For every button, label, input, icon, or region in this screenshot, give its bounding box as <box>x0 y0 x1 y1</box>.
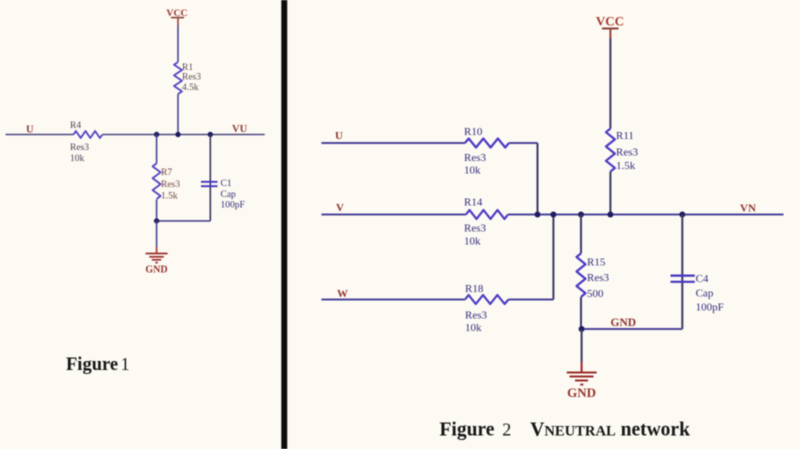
svg-text:10k: 10k <box>465 322 482 334</box>
wire W branch up <box>552 215 554 300</box>
wire U to R10 <box>321 142 465 144</box>
wire C1 branch vertical <box>209 135 211 221</box>
bottom wire R7 to C1 <box>157 220 211 222</box>
wire U to R4 <box>6 134 74 136</box>
junction node at R7 <box>154 132 159 137</box>
wire R11 to V node <box>609 172 611 215</box>
wire R1 to main node <box>177 94 179 135</box>
svg-text:Res3: Res3 <box>161 180 180 190</box>
svg-text:GND: GND <box>611 317 637 329</box>
wire R14 to VN <box>508 214 784 216</box>
svg-text:R1: R1 <box>182 63 193 73</box>
junction R15 <box>578 212 584 218</box>
junction U drop <box>535 212 541 218</box>
svg-text:VU: VU <box>232 124 248 135</box>
resistor R14 <box>464 197 508 248</box>
junction R11 <box>607 212 613 218</box>
svg-text:C1: C1 <box>221 179 232 189</box>
svg-text:R15: R15 <box>587 257 606 269</box>
junction W rise <box>550 212 556 218</box>
svg-text:100pF: 100pF <box>221 201 245 211</box>
svg-text:1.5k: 1.5k <box>161 192 178 202</box>
svg-text:R10: R10 <box>464 126 483 138</box>
capacitor C1 <box>201 179 245 211</box>
svg-text:Res3: Res3 <box>70 143 89 153</box>
power port VCC (left) <box>166 8 187 19</box>
junction node at C1 <box>208 132 213 137</box>
svg-text:U: U <box>335 130 343 142</box>
divider line <box>281 0 287 449</box>
svg-text:GND: GND <box>145 265 167 276</box>
svg-text:W: W <box>337 288 348 300</box>
svg-text:R14: R14 <box>464 197 483 209</box>
wire R7 to bottom node <box>156 200 158 221</box>
resistor R1 <box>174 62 201 94</box>
svg-text:10k: 10k <box>464 236 481 248</box>
svg-text:Res3: Res3 <box>182 73 201 83</box>
wire node to R7 <box>156 135 158 164</box>
wire R10 to corner <box>509 142 538 144</box>
wire C4 branch vertical <box>681 215 683 330</box>
svg-text:10k: 10k <box>70 154 85 164</box>
svg-text:VN: VN <box>740 203 756 215</box>
resistor R7 <box>153 163 181 201</box>
wire V to R14 <box>321 214 466 216</box>
svg-text:100pF: 100pF <box>696 302 724 314</box>
resistor R18 <box>465 283 509 334</box>
wire W to R18 <box>321 299 465 301</box>
wire R15 to bottom node <box>580 297 582 329</box>
wire R4 to VU <box>103 134 265 136</box>
resistor R10 <box>464 126 509 177</box>
resistor R11 <box>606 129 639 172</box>
svg-text:Res3: Res3 <box>587 272 610 284</box>
junction node bottom left <box>154 218 159 223</box>
svg-text:Res3: Res3 <box>464 152 487 164</box>
junction C4 <box>679 212 685 218</box>
wire VCC to R11 <box>609 29 611 39</box>
svg-text:Cap: Cap <box>221 190 237 200</box>
power port VCC (right) <box>596 14 624 29</box>
svg-text:Figure 1: Figure 1 <box>66 354 129 375</box>
wire VCC to R1 <box>177 18 179 25</box>
svg-text:1.5k: 1.5k <box>616 160 636 172</box>
wire U branch down <box>537 143 539 215</box>
wire R18 to corner <box>509 299 554 301</box>
wire V node to R15 <box>580 215 582 254</box>
svg-text:Figure 2VNEUTRAL network: Figure 2VNEUTRAL network <box>440 420 691 441</box>
svg-text:R11: R11 <box>616 130 634 142</box>
svg-text:C4: C4 <box>696 273 709 285</box>
svg-text:V: V <box>336 202 344 214</box>
svg-text:R18: R18 <box>465 283 484 295</box>
junction node at R1 <box>175 132 180 137</box>
svg-text:VCC: VCC <box>596 14 624 29</box>
ground GND (right) <box>567 373 597 401</box>
svg-text:500: 500 <box>587 288 604 300</box>
wire to ground (left) <box>156 221 158 247</box>
junction bottom node <box>579 326 585 332</box>
svg-text:4.5k: 4.5k <box>182 83 199 93</box>
ground GND (left) <box>145 254 167 276</box>
capacitor C4 <box>671 273 724 314</box>
resistor R4 <box>70 121 103 164</box>
svg-text:Res3: Res3 <box>464 223 487 235</box>
resistor R15 <box>577 253 610 300</box>
svg-text:Res3: Res3 <box>616 147 639 159</box>
svg-text:Res3: Res3 <box>465 310 488 322</box>
svg-text:GND: GND <box>567 385 596 400</box>
svg-text:R7: R7 <box>161 168 172 178</box>
svg-text:R4: R4 <box>70 121 81 131</box>
wire to ground (right) <box>581 329 583 362</box>
svg-text:10k: 10k <box>464 165 481 177</box>
bottom wire R15 to C4 <box>581 328 682 330</box>
svg-text:Cap: Cap <box>696 288 714 300</box>
